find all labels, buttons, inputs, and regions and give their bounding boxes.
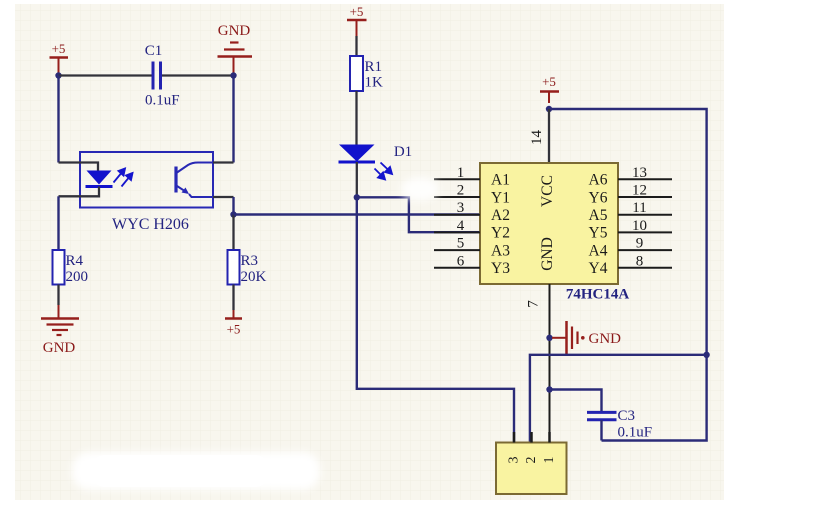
svg-text:A5: A5 xyxy=(589,207,608,224)
ground GND at pin 7 (rotated) xyxy=(552,321,621,355)
wire +5 to R1 xyxy=(355,36,357,56)
svg-text:Y2: Y2 xyxy=(491,225,510,242)
pin 9 (A4) xyxy=(589,236,672,260)
svg-text:1: 1 xyxy=(457,165,465,181)
svg-text:C3: C3 xyxy=(618,408,636,424)
svg-text:+5: +5 xyxy=(52,41,66,56)
wire C3 bottom xyxy=(600,420,602,441)
pin 8 (Y4) xyxy=(589,253,672,277)
svg-text:Y4: Y4 xyxy=(589,260,608,277)
svg-text:A2: A2 xyxy=(491,207,510,224)
svg-text:9: 9 xyxy=(636,236,644,252)
wire pin 7 down to connector pin 1 xyxy=(549,284,551,443)
wire left rail down to optocoupler anode pin xyxy=(57,76,59,163)
svg-text:A4: A4 xyxy=(589,242,608,259)
wire +5 junction to right rail down xyxy=(549,109,707,355)
svg-text:A6: A6 xyxy=(589,172,608,189)
capacitor C3 xyxy=(587,408,652,441)
white smudges (watermark remnants) xyxy=(72,177,439,490)
optocoupler cathode pin wire xyxy=(59,187,100,197)
svg-text:R1: R1 xyxy=(365,59,383,75)
resistor R4 xyxy=(53,250,89,285)
svg-text:12: 12 xyxy=(632,183,647,199)
svg-text:7: 7 xyxy=(526,300,542,308)
svg-text:1: 1 xyxy=(542,457,557,464)
IC U1 74HC14A body xyxy=(480,163,618,284)
resistor R3 xyxy=(228,250,267,285)
optocoupler anode pin wire xyxy=(59,163,99,171)
svg-text:+5: +5 xyxy=(350,4,364,19)
optocoupler light arrows xyxy=(114,169,133,187)
wire junction down to R3 xyxy=(232,215,234,251)
svg-text:GND: GND xyxy=(43,340,76,356)
svg-text:Y5: Y5 xyxy=(589,225,608,242)
svg-text:3: 3 xyxy=(457,200,465,216)
svg-text:4: 4 xyxy=(457,218,465,234)
svg-text:WYC H206: WYC H206 xyxy=(112,216,189,233)
wire D1 node to IC pin 4 xyxy=(357,197,480,232)
svg-text:GND: GND xyxy=(589,331,622,347)
optocoupler phototransistor xyxy=(176,163,213,198)
node: pin 7 / GND junction xyxy=(546,335,552,341)
svg-text:GND: GND xyxy=(539,237,556,271)
svg-text:Y3: Y3 xyxy=(491,260,510,277)
ground GND top xyxy=(218,23,253,76)
svg-text:R3: R3 xyxy=(241,253,259,269)
pin 11 (A5) xyxy=(589,200,672,224)
LED D1 arrows xyxy=(375,163,393,180)
power +5 top-left xyxy=(50,41,69,76)
node: C1 / GND junction xyxy=(230,72,236,78)
wire +5 rail down to C3 bottom xyxy=(602,355,707,441)
node: +5 rail / connector pin 2 junction xyxy=(703,352,709,358)
node: opto emitter / R3 / IC pin3 junction xyxy=(230,211,236,217)
optocoupler LED xyxy=(86,171,113,187)
power +5 above IC xyxy=(540,74,559,103)
pin 6 (Y3) xyxy=(434,253,510,277)
wire pin 14 xyxy=(548,109,550,163)
wire D1 to node xyxy=(356,162,358,197)
svg-text:+5: +5 xyxy=(542,74,556,89)
pin 13 (A6) xyxy=(589,165,672,189)
svg-text:2: 2 xyxy=(457,183,465,199)
svg-text:A3: A3 xyxy=(491,242,510,259)
node: D1 cathode junction xyxy=(354,194,360,200)
wire R4 to ground xyxy=(57,285,59,306)
svg-text:13: 13 xyxy=(632,165,647,181)
connector P1 body xyxy=(496,443,567,495)
svg-text:Y1: Y1 xyxy=(491,189,510,206)
svg-text:GND: GND xyxy=(218,23,251,39)
pin 3 (A2) xyxy=(434,200,510,224)
optocoupler WYC H206 body xyxy=(80,152,213,208)
node: +5 / pin14 junction xyxy=(546,106,552,112)
wire R1 to D1 xyxy=(355,91,357,145)
svg-text:A1: A1 xyxy=(491,172,510,189)
connector pin stubs xyxy=(514,432,550,443)
wire emitter down to node xyxy=(232,197,234,215)
node: +5 / C1 junction xyxy=(55,72,61,78)
wire C1 right plate to GND junction xyxy=(162,74,234,76)
svg-text:6: 6 xyxy=(457,253,465,269)
svg-text:1K: 1K xyxy=(365,75,384,91)
wire junction to IC pin 3 xyxy=(234,213,481,215)
svg-text:C1: C1 xyxy=(145,43,163,59)
svg-text:5: 5 xyxy=(457,236,465,252)
svg-text:11: 11 xyxy=(632,200,646,216)
wire junction to C1 left plate xyxy=(59,74,152,76)
pin 10 (Y5) xyxy=(589,218,672,242)
node: pin7 wire / C3 junction xyxy=(546,386,552,392)
svg-text:8: 8 xyxy=(636,253,644,269)
ground GND bottom-left xyxy=(41,319,79,357)
wire right rail down to optocoupler collector pin xyxy=(232,76,234,163)
pin 12 (Y6) xyxy=(589,183,672,207)
wire D1 node down to connector pin 3 xyxy=(357,197,514,442)
power +5 below R3 xyxy=(225,319,242,337)
wire junction to C3 top xyxy=(550,390,602,413)
power +5 above R1 xyxy=(347,4,367,36)
svg-text:0.1uF: 0.1uF xyxy=(618,425,653,441)
pin 4 (Y2) xyxy=(434,218,510,242)
wire emitter pin stub xyxy=(213,196,234,198)
pin 1 (A1) xyxy=(434,165,510,189)
svg-text:VCC: VCC xyxy=(539,175,556,207)
svg-text:3: 3 xyxy=(507,457,522,464)
svg-text:0.1uF: 0.1uF xyxy=(145,93,180,109)
svg-text:200: 200 xyxy=(66,269,89,285)
pin 5 (A3) xyxy=(434,236,510,260)
LED D1 xyxy=(339,144,413,162)
svg-text:R4: R4 xyxy=(66,253,84,269)
resistor R1 xyxy=(350,56,383,91)
wire cathode rail down to R4 xyxy=(57,196,59,250)
pin 2 (Y1) xyxy=(434,183,510,207)
svg-text:14: 14 xyxy=(529,130,545,146)
svg-text:D1: D1 xyxy=(394,144,412,160)
svg-text:+5: +5 xyxy=(227,322,241,337)
svg-text:74HC14A: 74HC14A xyxy=(566,287,630,303)
wire collector pin stub xyxy=(213,161,234,163)
capacitor C1 xyxy=(145,43,180,109)
svg-text:20K: 20K xyxy=(241,269,267,285)
wire +5 rail to connector pin 2 xyxy=(530,355,707,443)
svg-text:10: 10 xyxy=(632,218,647,234)
wire R3 down to +5 xyxy=(232,285,234,311)
svg-text:Y6: Y6 xyxy=(589,189,608,206)
svg-text:2: 2 xyxy=(524,457,539,464)
